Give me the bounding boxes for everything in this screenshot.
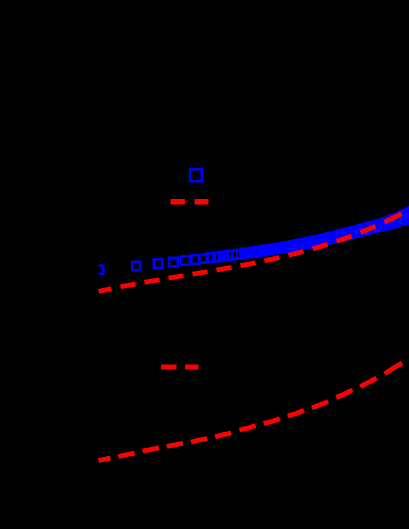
red dashed curve (lower) bbox=[99, 363, 402, 461]
data series: blue open squares bbox=[95, 207, 409, 274]
red dashed curve (upper) bbox=[99, 214, 402, 292]
legend sample: red dashes (lower key) bbox=[161, 365, 199, 370]
legend sample: blue square bbox=[190, 169, 202, 181]
legend sample: red dashes (upper key) bbox=[171, 199, 209, 205]
